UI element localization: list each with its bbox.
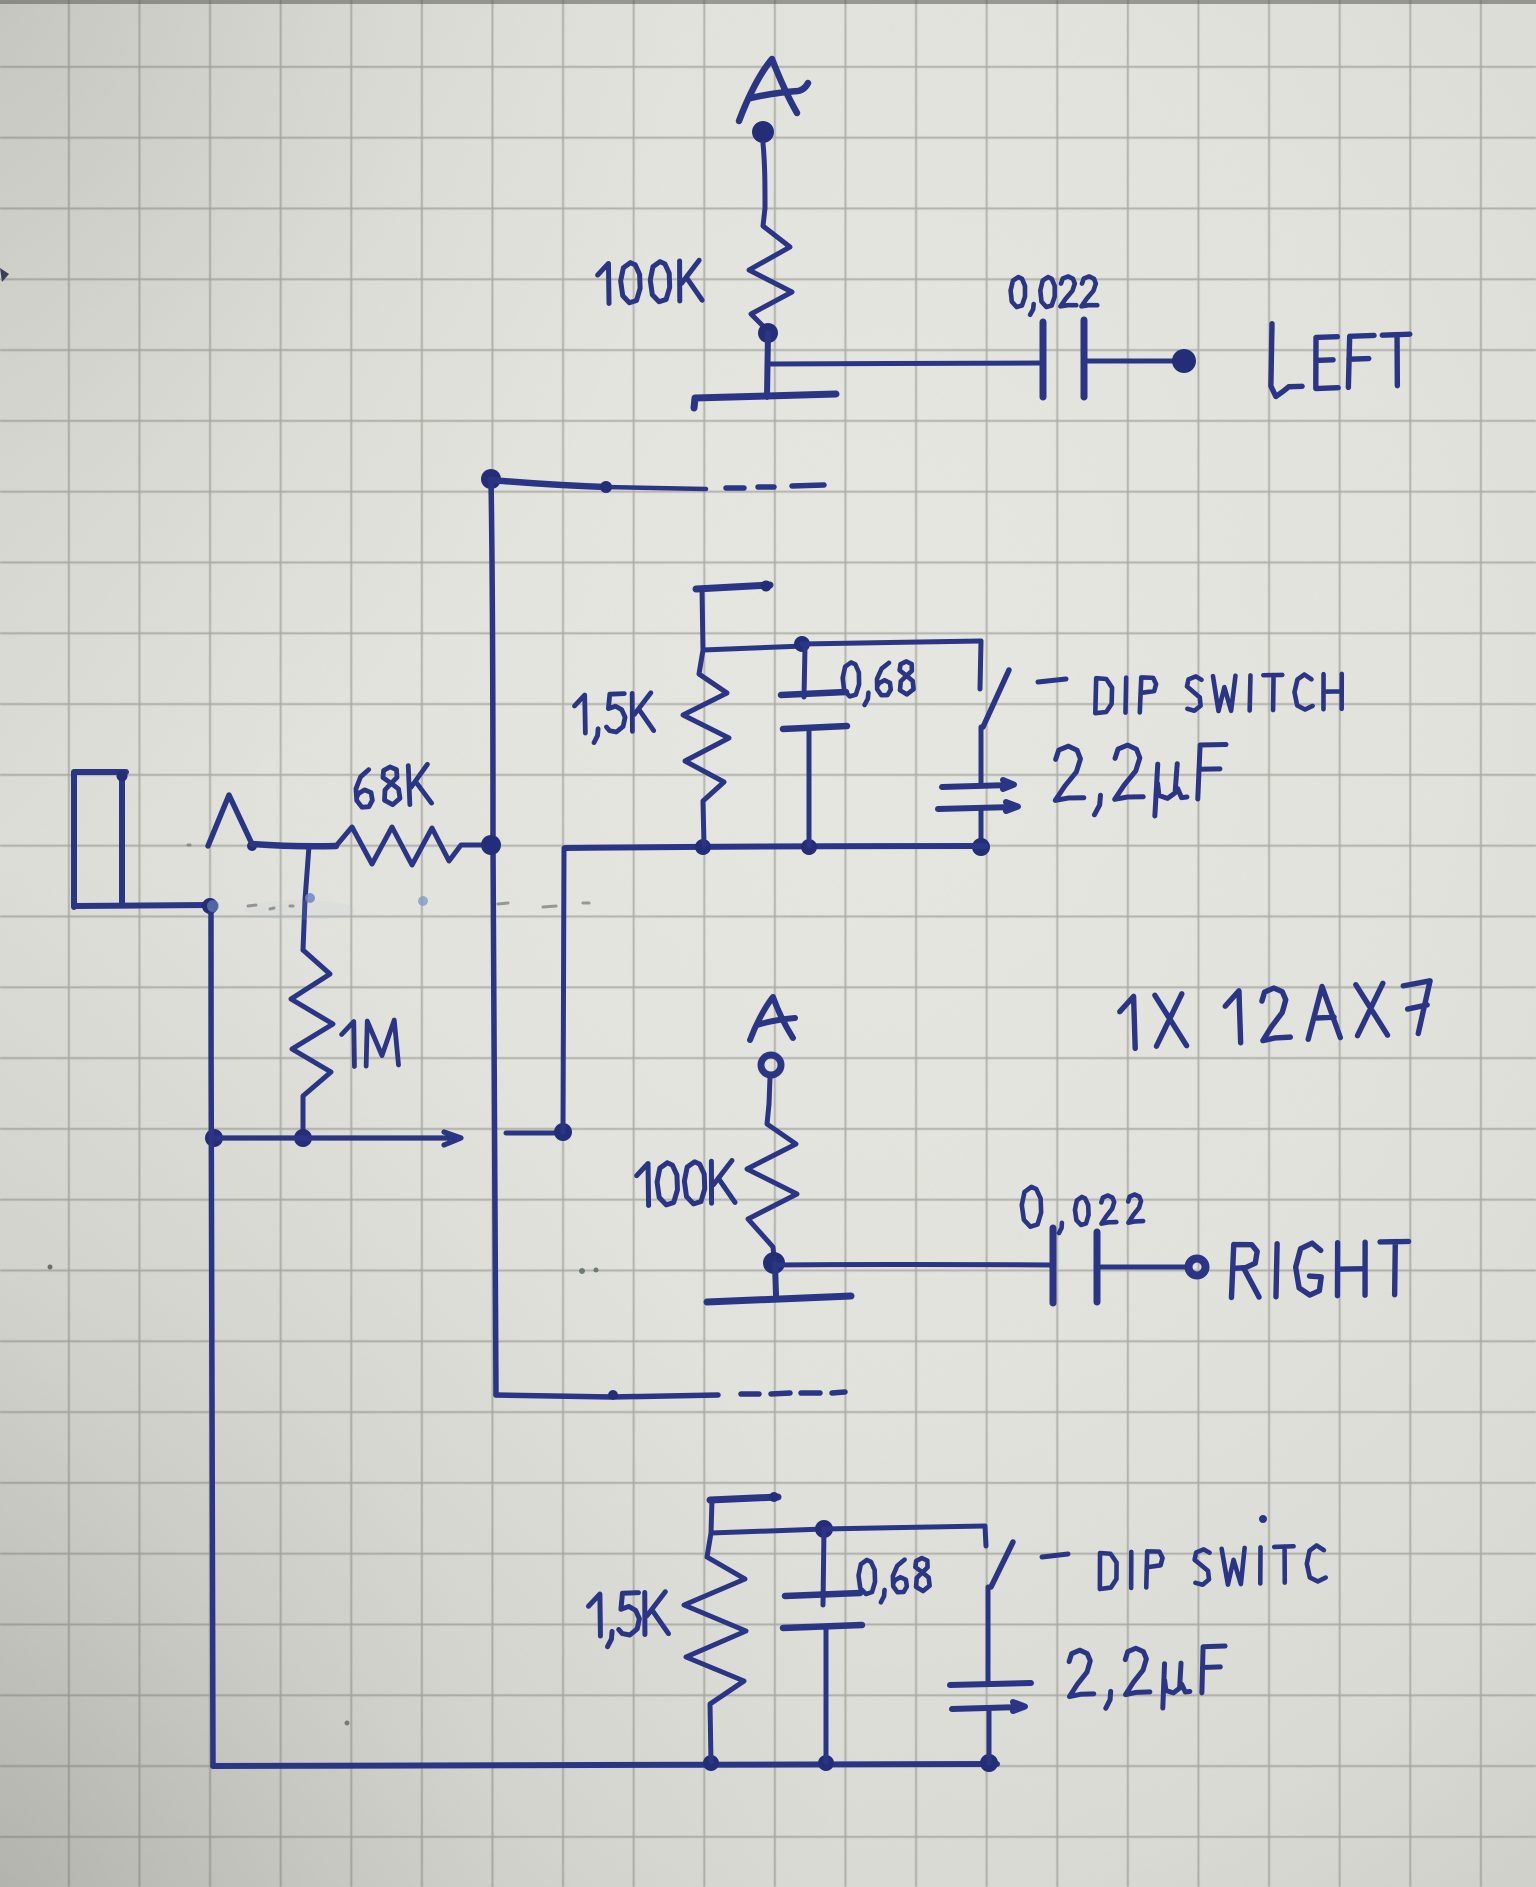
resistor R6 100K (right plate load) — [747, 1104, 797, 1258]
wire node A to R1 — [763, 143, 765, 208]
label 1X 12AX7 — [1119, 980, 1433, 1049]
junction dot cathode node left — [794, 636, 810, 652]
junction dot left bus at ground wire — [205, 1129, 223, 1147]
junction dot 68K to grid bus — [481, 835, 501, 855]
wire grid V1B solid part — [496, 1395, 718, 1397]
switch S1 blade (DIP switch left) — [983, 670, 1009, 727]
wet ink dot mid — [418, 896, 428, 906]
capacitor C2 0,68 left top lead — [804, 647, 805, 697]
junction plate node left — [758, 323, 778, 343]
label dash to DIP SWITCH left — [1038, 679, 1066, 682]
tip arrow blob — [247, 841, 257, 851]
wire cap to RIGHT output — [1097, 1265, 1188, 1270]
value label 2,2uF left — [1054, 743, 1227, 817]
terminal dot node A left — [752, 121, 774, 143]
capacitor C5 0,68 right plate 2 — [783, 1625, 862, 1628]
wire switch fixed contact right — [985, 1526, 986, 1546]
wire grid bus vertical (input node to both grids) — [491, 479, 496, 1395]
wire switch fixed contact left — [980, 641, 981, 689]
smudge mark near jack — [245, 900, 355, 920]
label RIGHT output — [1231, 1241, 1410, 1297]
wire plate to coupling cap right — [775, 1262, 1051, 1268]
junction dot R4 bottom — [294, 1129, 312, 1147]
capacitor C6 2,2uF right plate 1 — [950, 1683, 1031, 1685]
capacitor C2 0,68 left plate 1 — [781, 692, 846, 695]
wire C6 to bottom rail — [987, 1710, 992, 1763]
capacitor C1 0,022 left plate 1 — [1040, 322, 1047, 397]
value label 0,022 right — [1021, 1183, 1143, 1234]
wire plate lead left — [767, 333, 768, 397]
resistor R2 1,5K left cathode — [683, 650, 729, 845]
value label 1,5K right — [588, 1592, 669, 1648]
node A (right channel plate supply label) — [750, 997, 795, 1040]
bottom ground rail — [213, 1764, 997, 1766]
junction dot bottom rail C6 — [980, 1754, 998, 1772]
node grid junction left — [481, 469, 501, 489]
wire cap to LEFT output — [1084, 359, 1176, 364]
wire C3 to cathode rail left — [979, 809, 984, 847]
wire plate lead right — [775, 1264, 776, 1295]
jack corner blob — [117, 771, 128, 782]
wire grid V1A solid part — [491, 480, 605, 487]
terminal ring node A right — [761, 1055, 781, 1075]
input jack tip contact arrow — [208, 795, 252, 846]
wire cathode lead V1A — [702, 589, 703, 650]
resistor R3 68K input — [336, 827, 487, 865]
junction dot bottom rail R5 — [703, 1755, 719, 1771]
cathode bar end blob right — [769, 1492, 779, 1502]
switch S2 blade (DIP switch right) — [991, 1542, 1013, 1587]
wire cathode node line V1B — [711, 1529, 824, 1533]
ink speck left margin — [0, 268, 9, 282]
label DIP SWITC right — [1099, 1545, 1326, 1589]
junction dot cathode node right — [815, 1520, 833, 1538]
cathode rail left — [565, 846, 985, 848]
value label 1M — [341, 1020, 398, 1067]
capacitor C2 0,68 left bottom lead — [807, 729, 812, 846]
resistor R1 100K (left plate load) — [749, 208, 792, 331]
wire plate to coupling cap left — [768, 363, 1041, 364]
cathode bar end blob left — [761, 581, 772, 592]
ground return wire with arrow — [214, 1132, 461, 1145]
junction dot C2 rail left — [801, 839, 817, 855]
wire cathode node line V1A — [703, 646, 804, 650]
value label 100K left — [597, 260, 702, 304]
triode V1B cathode bar — [710, 1497, 778, 1500]
triode V1A plate bar — [694, 394, 836, 408]
wire stub to cathode rail drop — [506, 1131, 560, 1136]
capacitor C3 2,2uF left plate 1 — [942, 780, 1014, 789]
pen blob grid wire — [600, 481, 612, 493]
junction plate node right — [763, 1252, 785, 1274]
capacitor C6 2,2uF right plate 2 — [952, 1702, 1025, 1711]
wire cathode node to switch left — [802, 641, 981, 644]
capacitor C5 0,68 right plate 1 — [785, 1593, 860, 1596]
capacitor C1 0,022 left plate 2 — [1081, 320, 1088, 397]
pencil specks under input wire — [188, 845, 589, 909]
triode V1B plate bar — [707, 1296, 851, 1302]
wire cathode node to switch right — [824, 1526, 985, 1529]
capacitor C3 2,2uF left plate 2 — [938, 802, 1018, 811]
wire switch to C6 right — [986, 1587, 991, 1681]
i dot of DIP SWITC — [1259, 1515, 1267, 1523]
wire grid V1B dashes — [741, 1392, 845, 1394]
wire input tee down to R4 — [303, 846, 309, 950]
value label 100K right — [636, 1160, 735, 1205]
junction dot jack corner — [202, 898, 218, 914]
capacitor C5 0,68 right bottom lead — [824, 1628, 829, 1762]
capacitor C5 0,68 right top lead — [823, 1529, 824, 1605]
wire cathode lead V1B — [711, 1500, 712, 1533]
wire grid V1A thin part — [605, 487, 706, 489]
output terminal dot RIGHT — [1189, 1259, 1206, 1276]
value label 0,022 left — [1011, 276, 1098, 314]
label dash to DIP SWITC right — [1042, 1554, 1068, 1557]
junction dot bottom rail C5 — [818, 1755, 834, 1771]
ink specks small — [48, 1265, 53, 1270]
pen blob lower grid wire — [608, 1390, 618, 1400]
triode V1A cathode bar — [696, 585, 770, 589]
capacitor C4 0,022 right plate 1 — [1050, 1228, 1057, 1303]
wire input to 68K — [252, 844, 336, 846]
value label 2,2uF right — [1068, 1645, 1227, 1711]
wet ink blob on 1M lead — [305, 893, 315, 903]
capacitor C4 0,022 right plate 2 — [1094, 1232, 1101, 1302]
wire switch to C3 left — [979, 727, 984, 785]
output terminal dot LEFT — [1172, 349, 1196, 373]
resistor R4 1M input shunt — [291, 950, 333, 1138]
label LEFT output — [1269, 319, 1412, 397]
node A (left channel plate supply label) — [739, 59, 808, 121]
junction dot C3 rail left — [972, 838, 990, 856]
capacitor C2 0,68 left plate 2 — [783, 726, 847, 729]
wire grid V1A dashes — [726, 485, 824, 488]
value label 0,68 left — [842, 661, 913, 705]
wire cathode rail drop vertical — [563, 848, 564, 1132]
value label 68K — [355, 764, 432, 808]
junction dot stub — [554, 1123, 572, 1141]
input jack J1 — [74, 772, 208, 907]
label DIP SWITCH left — [1095, 674, 1343, 713]
value label 1,5K left — [574, 693, 654, 744]
junction dot R2 rail left — [695, 839, 711, 855]
value label 0,68 right — [858, 1558, 930, 1603]
left ground bus vertical — [211, 907, 213, 1766]
resistor R5 1,5K right cathode — [684, 1533, 746, 1762]
wire node A right to R6 — [769, 1077, 770, 1104]
